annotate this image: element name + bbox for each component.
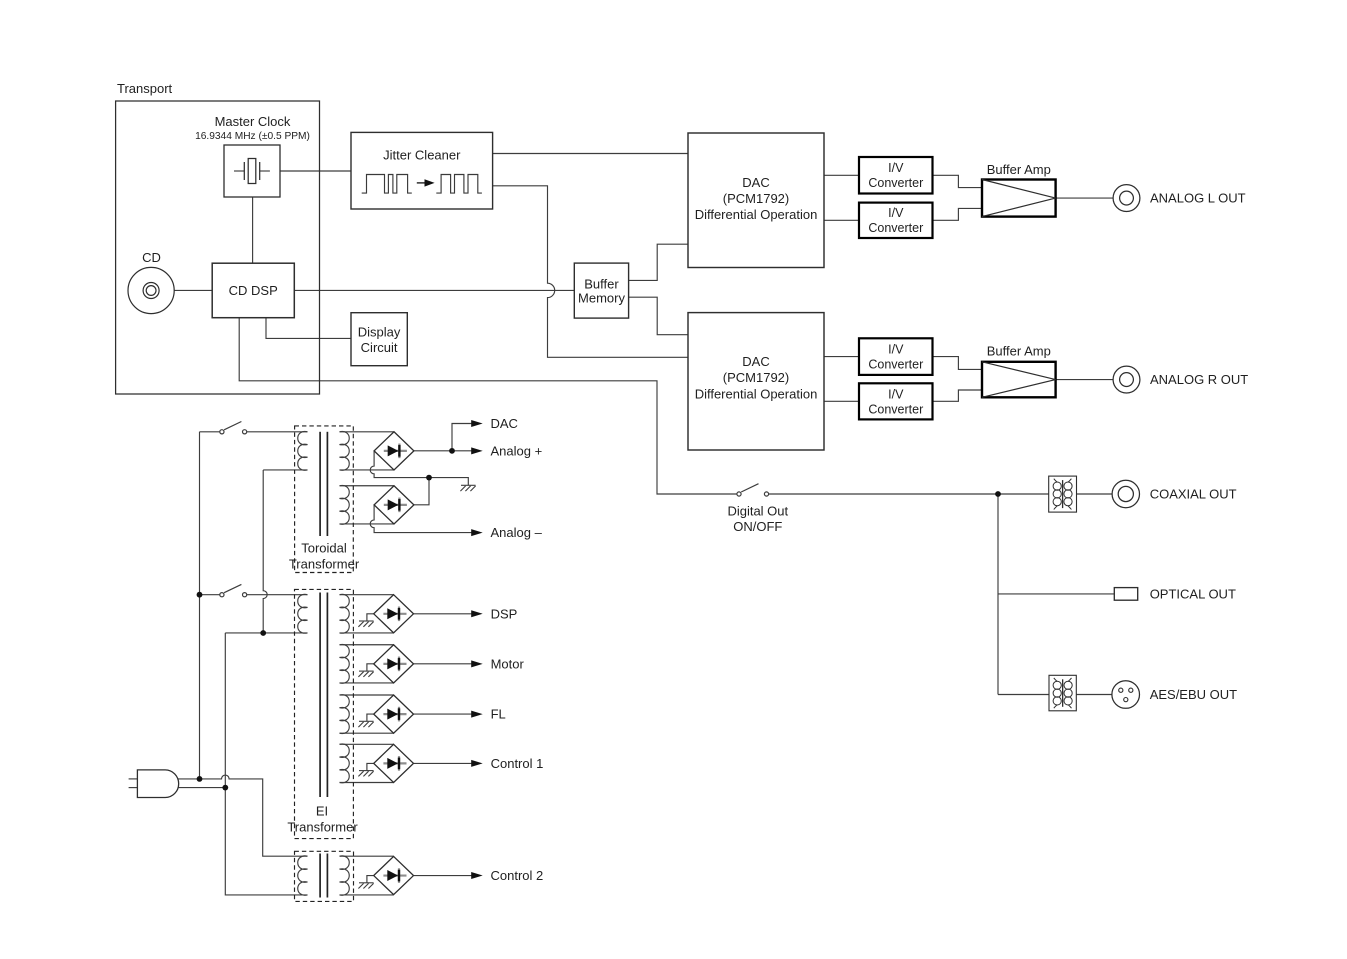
svg-text:I/V: I/V: [888, 206, 904, 220]
svg-text:Transport: Transport: [117, 81, 173, 96]
svg-text:Analog +: Analog +: [491, 444, 543, 459]
svg-text:Transformer: Transformer: [289, 557, 360, 572]
svg-text:Differential Operation: Differential Operation: [695, 386, 818, 401]
svg-text:EI: EI: [316, 803, 328, 818]
svg-text:I/V: I/V: [888, 161, 904, 175]
svg-text:ANALOG R OUT: ANALOG R OUT: [1150, 372, 1248, 387]
svg-text:COAXIAL OUT: COAXIAL OUT: [1150, 487, 1237, 502]
svg-text:Buffer Amp: Buffer Amp: [987, 343, 1051, 358]
svg-text:Converter: Converter: [868, 402, 923, 416]
svg-text:Circuit: Circuit: [361, 340, 398, 355]
svg-text:DAC: DAC: [742, 354, 769, 369]
svg-text:DAC: DAC: [491, 416, 518, 431]
svg-text:ANALOG L OUT: ANALOG L OUT: [1150, 191, 1246, 206]
svg-text:Display: Display: [358, 325, 401, 340]
svg-text:Control 1: Control 1: [491, 756, 544, 771]
svg-text:FL: FL: [491, 707, 506, 722]
svg-text:Motor: Motor: [491, 656, 525, 671]
svg-text:CD DSP: CD DSP: [229, 283, 278, 298]
svg-text:(PCM1792): (PCM1792): [723, 370, 789, 385]
svg-text:Control 2: Control 2: [491, 868, 544, 883]
svg-text:Converter: Converter: [868, 176, 923, 190]
svg-text:ON/OFF: ON/OFF: [733, 519, 782, 534]
svg-text:Transformer: Transformer: [287, 820, 358, 835]
svg-text:DAC: DAC: [742, 175, 769, 190]
svg-text:I/V: I/V: [888, 387, 904, 401]
svg-text:Differential Operation: Differential Operation: [695, 207, 818, 222]
svg-text:Toroidal: Toroidal: [301, 540, 347, 555]
svg-text:DSP: DSP: [491, 606, 518, 621]
svg-text:Digital Out: Digital Out: [727, 504, 788, 519]
svg-text:OPTICAL OUT: OPTICAL OUT: [1150, 587, 1236, 602]
svg-text:Buffer Amp: Buffer Amp: [987, 162, 1051, 177]
svg-text:(PCM1792): (PCM1792): [723, 191, 789, 206]
svg-text:Jitter Cleaner: Jitter Cleaner: [383, 147, 461, 162]
svg-text:Analog –: Analog –: [491, 525, 543, 540]
svg-text:Buffer: Buffer: [584, 276, 619, 291]
svg-text:AES/EBU OUT: AES/EBU OUT: [1150, 687, 1237, 702]
svg-text:Converter: Converter: [868, 221, 923, 235]
svg-text:16.9344 MHz (±0.5 PPM): 16.9344 MHz (±0.5 PPM): [195, 131, 310, 142]
svg-text:Converter: Converter: [868, 358, 923, 372]
svg-text:Master Clock: Master Clock: [215, 114, 291, 129]
svg-text:I/V: I/V: [888, 343, 904, 357]
svg-text:Memory: Memory: [578, 291, 625, 306]
svg-text:CD: CD: [142, 250, 161, 265]
